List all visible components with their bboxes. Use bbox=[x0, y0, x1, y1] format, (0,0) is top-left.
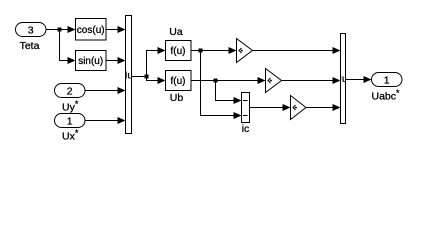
svg-text:ic: ic bbox=[242, 123, 250, 135]
arrowhead sin-mux bbox=[118, 57, 126, 64]
arrowhead into cos bbox=[68, 26, 76, 33]
inport 3 Teta bbox=[16, 23, 47, 53]
svg-text:f(u): f(u) bbox=[171, 46, 186, 57]
svg-text:1: 1 bbox=[384, 74, 390, 86]
inport 1 Ux* bbox=[55, 114, 86, 143]
node junction u bbox=[145, 75, 149, 79]
arrowhead into fu-Ub bbox=[158, 77, 166, 84]
arrowhead into gain3 bbox=[283, 104, 291, 111]
outport 1 Uabc* bbox=[372, 73, 403, 103]
block sin(u) bbox=[76, 51, 107, 71]
arrowhead into out port bbox=[364, 76, 372, 83]
wire node J2 down to sum bbox=[216, 81, 241, 101]
svg-text:1: 1 bbox=[67, 115, 73, 127]
arrowhead gain2-mux2 bbox=[333, 77, 341, 84]
block cos(u) bbox=[76, 19, 107, 41]
wire branch up to f(u) Ua bbox=[147, 51, 165, 77]
svg-text:2: 2 bbox=[67, 85, 73, 97]
svg-text:Ua: Ua bbox=[169, 26, 183, 38]
arrowhead gain3-mux2 bbox=[333, 104, 341, 111]
svg-text:sin(u): sin(u) bbox=[78, 56, 103, 67]
svg-text:Teta: Teta bbox=[20, 40, 40, 52]
gain K2 bbox=[266, 69, 282, 93]
block f(u) Ua bbox=[166, 26, 192, 61]
node J2 bbox=[214, 79, 218, 83]
node J1 bbox=[199, 49, 203, 53]
svg-text:f(u): f(u) bbox=[171, 76, 186, 87]
wire gain1 to mux2 bbox=[253, 50, 340, 52]
wire sum out to gain3 bbox=[250, 107, 290, 109]
svg-text:Ub: Ub bbox=[170, 92, 184, 104]
svg-text:cos(u): cos(u) bbox=[77, 25, 105, 36]
inport 2 Uy* bbox=[55, 84, 86, 114]
wire Ua out to gain1 bbox=[191, 50, 235, 52]
sum ic bbox=[242, 93, 250, 136]
wire gain2 to mux2 bbox=[282, 80, 340, 82]
svg-text:3: 3 bbox=[28, 24, 34, 36]
wire cos to mux bbox=[106, 29, 124, 31]
arrowhead into gain1 bbox=[229, 47, 237, 54]
arrowhead gain1-mux2 bbox=[333, 47, 341, 54]
gain K1 bbox=[237, 39, 253, 63]
arrowhead into sin bbox=[68, 57, 76, 64]
wire sin to mux bbox=[106, 60, 124, 62]
wire Teta out bbox=[46, 29, 74, 31]
wire node J1 down to sum bbox=[201, 51, 241, 116]
arrowhead Ux-mux bbox=[118, 117, 126, 124]
wire Teta branch down to sin bbox=[60, 30, 75, 61]
node junction Teta bbox=[58, 28, 62, 32]
arrowhead into sum bottom bbox=[234, 112, 242, 119]
svg-text:Uabc*: Uabc* bbox=[372, 88, 401, 103]
arrowhead into gain2 bbox=[258, 77, 266, 84]
wire mux2 out bbox=[346, 79, 371, 81]
wire mux output u bbox=[132, 76, 147, 78]
arrowhead into fu-Ua bbox=[158, 47, 166, 54]
wire branch down to f(u) Ub bbox=[147, 77, 165, 81]
wire gain3 to mux2 bbox=[306, 107, 339, 109]
block f(u) Ub bbox=[166, 71, 192, 105]
arrowhead cos-mux bbox=[118, 26, 126, 33]
gain K3 bbox=[291, 96, 307, 120]
wire Uy* to mux bbox=[85, 90, 124, 92]
mux Mux1 bbox=[119, 16, 140, 134]
wire Ux* to mux bbox=[85, 120, 124, 122]
wire Ub out to gain2 bbox=[191, 80, 264, 82]
arrowhead into sum top bbox=[234, 97, 242, 104]
arrowhead Uy-mux bbox=[118, 87, 126, 94]
mux Mux2 bbox=[333, 34, 354, 124]
